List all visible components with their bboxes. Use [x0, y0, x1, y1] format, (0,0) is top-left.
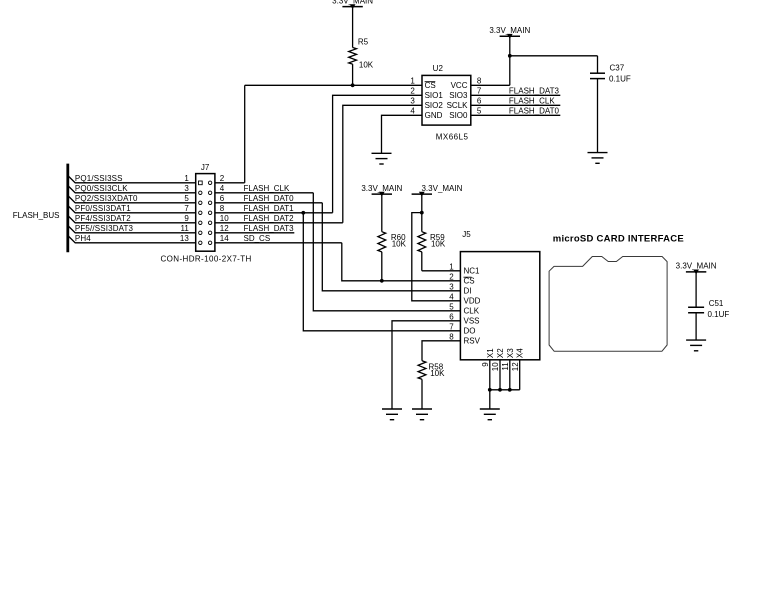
svg-text:12: 12 — [511, 362, 520, 371]
svg-text:VSS: VSS — [464, 317, 480, 326]
svg-text:microSD CARD INTERFACE: microSD CARD INTERFACE — [553, 234, 684, 245]
bus entry + wire PQ0/SSI3CLK (J7 pin 3) — [68, 184, 195, 193]
svg-text:3: 3 — [410, 97, 415, 106]
IC U2 MX66L5 flash — [410, 64, 482, 142]
bus entry + wire PH4 (J7 pin 13) — [68, 234, 195, 243]
svg-text:GND: GND — [425, 111, 443, 120]
wire FLASH_DAT0 to J5 DI — [322, 203, 460, 291]
svg-text:2: 2 — [410, 87, 415, 96]
wire U2 GND pin to ground — [382, 115, 423, 153]
svg-text:10: 10 — [220, 214, 229, 223]
svg-text:9: 9 — [481, 362, 490, 367]
svg-text:2: 2 — [220, 174, 225, 183]
svg-text:FLASH_DAT3: FLASH_DAT3 — [244, 224, 295, 233]
wire FLASH_DAT1 to J5 DO — [303, 213, 460, 331]
node VCC/C37 junction — [508, 54, 512, 58]
svg-text:FLASH_BUS: FLASH_BUS — [13, 211, 60, 220]
svg-text:PQ0/SSI3CLK: PQ0/SSI3CLK — [75, 184, 128, 193]
svg-text:PF0/SSI3DAT1: PF0/SSI3DAT1 — [75, 204, 131, 213]
bus entry + wire PQ1/SSI3SS (J7 pin 1) — [68, 174, 195, 183]
svg-text:J7: J7 — [201, 163, 210, 172]
svg-text:J5: J5 — [462, 230, 471, 239]
svg-text:11: 11 — [180, 224, 189, 233]
svg-text:1: 1 — [184, 174, 189, 183]
microSD card outline drawing — [549, 257, 667, 352]
svg-text:CS: CS — [464, 277, 475, 286]
wire U2 pin6 net FLASH_CLK — [471, 97, 561, 106]
svg-text:R5: R5 — [358, 37, 369, 46]
svg-text:DO: DO — [464, 327, 476, 336]
svg-text:SIO0: SIO0 — [449, 111, 468, 120]
svg-text:14: 14 — [220, 234, 229, 243]
bus FLASH_BUS — [13, 164, 68, 253]
svg-text:FLASH_DAT0: FLASH_DAT0 — [509, 107, 560, 116]
svg-text:2: 2 — [449, 272, 454, 281]
svg-text:3.3V_MAIN: 3.3V_MAIN — [489, 26, 530, 35]
svg-text:X3: X3 — [506, 348, 515, 358]
svg-text:10: 10 — [491, 362, 500, 371]
svg-text:PF4/SSI3DAT2: PF4/SSI3DAT2 — [75, 214, 131, 223]
svg-text:CON-HDR-100-2X7-TH: CON-HDR-100-2X7-TH — [161, 255, 252, 264]
svg-text:1: 1 — [410, 77, 415, 86]
svg-text:PF5//SSI3DAT3: PF5//SSI3DAT3 — [75, 224, 134, 233]
wire FLASH_CLK to J5 CLK — [313, 193, 460, 311]
svg-text:7: 7 — [477, 87, 482, 96]
svg-text:0.1UF: 0.1UF — [609, 74, 631, 83]
wire U2 pin5 net FLASH_DAT0 — [471, 107, 561, 116]
wire CS net vertical x=244 — [244, 85, 246, 183]
svg-text:0.1UF: 0.1UF — [708, 310, 730, 319]
svg-text:X1: X1 — [486, 348, 495, 358]
ground C37 — [588, 153, 608, 164]
bus entry + wire PF0/SSI3DAT1 (J7 pin 7) — [68, 204, 195, 213]
svg-text:SIO2: SIO2 — [425, 101, 444, 110]
wire J7 pin 14 row net SD_CS — [215, 234, 342, 243]
svg-text:4: 4 — [449, 292, 454, 301]
svg-text:6: 6 — [477, 97, 482, 106]
wire J7 pin 10 row net FLASH_DAT2 — [215, 214, 343, 223]
svg-text:8: 8 — [477, 77, 482, 86]
resistor R5 10K pullup — [349, 7, 374, 86]
svg-text:3.3V_MAIN: 3.3V_MAIN — [361, 184, 402, 193]
svg-text:10K: 10K — [430, 369, 445, 378]
wire J5 bottom pins 9-12 — [481, 360, 520, 409]
power 3.3V_MAIN (R60) — [361, 184, 402, 197]
svg-text:SD_CS: SD_CS — [244, 234, 271, 243]
node X3 junction — [508, 388, 512, 392]
node R59 rail junction — [420, 211, 424, 215]
wire CS net horizontal to U2 pin1 — [245, 84, 422, 86]
wire to C37 — [510, 55, 598, 57]
svg-text:10K: 10K — [431, 240, 446, 249]
svg-text:FLASH_DAT1: FLASH_DAT1 — [244, 204, 295, 213]
wire SD_CS to J5 CS — [342, 243, 461, 281]
svg-text:4: 4 — [220, 184, 225, 193]
wire U2 VCC pin8 — [471, 84, 510, 86]
connector J7 CON-HDR-100-2X7-TH — [161, 163, 252, 264]
power 3.3V_MAIN (C51) — [676, 262, 717, 275]
svg-text:3.3V_MAIN: 3.3V_MAIN — [676, 262, 717, 271]
svg-text:SCLK: SCLK — [447, 101, 469, 110]
svg-text:6: 6 — [220, 194, 225, 203]
svg-text:FLASH_DAT0: FLASH_DAT0 — [244, 194, 295, 203]
resistor R59 10K — [418, 194, 461, 271]
svg-text:11: 11 — [501, 362, 510, 371]
svg-text:SIO3: SIO3 — [449, 91, 468, 100]
ground J5 shield pins — [480, 409, 500, 420]
bus entry + wire PF4/SSI3DAT2 (J7 pin 9) — [68, 214, 195, 223]
resistor R58 10K — [418, 341, 460, 409]
bus entry + wire PF5//SSI3DAT3 (J7 pin 11) — [68, 224, 195, 233]
resistor R60 10K — [378, 194, 407, 281]
svg-text:U2: U2 — [433, 64, 444, 73]
wire J7 pin 6 row net FLASH_DAT0 — [215, 194, 322, 203]
svg-text:5: 5 — [184, 194, 189, 203]
svg-text:DI: DI — [464, 287, 472, 296]
wire J7 pin 8 row net FLASH_DAT1 — [215, 204, 333, 213]
wire J7 pin 4 row net FLASH_CLK — [215, 184, 313, 193]
wire 3.3V to J5 VDD — [412, 213, 461, 301]
svg-text:PH4: PH4 — [75, 234, 91, 243]
svg-text:10K: 10K — [359, 61, 374, 70]
wire VCC rail vertical — [509, 36, 511, 85]
capacitor C37 0.1UF — [597, 56, 599, 73]
svg-text:8: 8 — [449, 332, 454, 341]
connector J5 microSD socket — [449, 230, 540, 360]
svg-text:FLASH_CLK: FLASH_CLK — [244, 184, 290, 193]
svg-text:X2: X2 — [496, 348, 505, 358]
svg-text:10K: 10K — [392, 240, 407, 249]
svg-text:FLASH_CLK: FLASH_CLK — [509, 97, 555, 106]
svg-text:9: 9 — [184, 214, 189, 223]
svg-text:12: 12 — [220, 224, 229, 233]
svg-text:CS: CS — [425, 81, 436, 90]
node R60/SD_CS junction — [380, 279, 384, 283]
ground R58 — [412, 409, 432, 420]
svg-text:MX66L5: MX66L5 — [436, 133, 469, 142]
wire J5 VSS to ground — [392, 321, 460, 409]
ground C51 — [686, 340, 706, 351]
capacitor C51 0.1UF — [695, 272, 697, 307]
svg-text:7: 7 — [449, 322, 454, 331]
svg-text:PQ2/SSI3XDAT0: PQ2/SSI3XDAT0 — [75, 194, 138, 203]
svg-text:1: 1 — [449, 262, 454, 271]
svg-text:SIO1: SIO1 — [425, 91, 444, 100]
svg-text:CLK: CLK — [464, 307, 480, 316]
svg-text:5: 5 — [449, 302, 454, 311]
svg-text:VCC: VCC — [451, 81, 468, 90]
svg-text:VDD: VDD — [464, 297, 481, 306]
svg-text:13: 13 — [180, 234, 189, 243]
svg-text:C37: C37 — [610, 63, 625, 72]
node X1 junction — [488, 388, 492, 392]
power 3.3V_MAIN (R5 pullup rail) — [332, 0, 373, 9]
svg-text:C51: C51 — [709, 299, 724, 308]
svg-text:4: 4 — [410, 107, 415, 116]
power 3.3V_MAIN (R59) — [412, 184, 463, 197]
svg-text:RSV: RSV — [464, 337, 481, 346]
svg-text:6: 6 — [449, 312, 454, 321]
svg-text:X4: X4 — [516, 348, 525, 358]
node FLASH_DAT1 junction — [301, 211, 305, 215]
wire U2 SIO1 to FLASH_DAT1 — [333, 95, 422, 213]
svg-text:PQ1/SSI3SS: PQ1/SSI3SS — [75, 174, 123, 183]
svg-text:FLASH_DAT2: FLASH_DAT2 — [244, 214, 295, 223]
bus entry + wire PQ2/SSI3XDAT0 (J7 pin 5) — [68, 194, 195, 203]
node R5/CS junction — [351, 83, 355, 87]
wire U2 pin7 net FLASH_DAT3 — [471, 87, 561, 96]
ground VSS — [382, 409, 402, 420]
node X2 junction — [498, 388, 502, 392]
power 3.3V_MAIN (U2 VCC rail) — [489, 26, 530, 39]
svg-text:FLASH_DAT3: FLASH_DAT3 — [509, 87, 560, 96]
wire J7 pin2 stub — [215, 182, 245, 184]
wire U2 SIO2 to FLASH_DAT2 — [343, 105, 422, 223]
svg-text:3.3V_MAIN: 3.3V_MAIN — [422, 184, 463, 193]
svg-text:5: 5 — [477, 107, 482, 116]
wire J7 pin 2 row — [220, 174, 225, 183]
wire J7 pin 12 row net FLASH_DAT3 — [215, 224, 294, 233]
svg-text:7: 7 — [184, 204, 189, 213]
svg-text:8: 8 — [220, 204, 225, 213]
ground U2 GND — [372, 153, 392, 164]
svg-text:NC1: NC1 — [464, 267, 481, 276]
svg-text:3: 3 — [184, 184, 189, 193]
svg-text:3: 3 — [449, 282, 454, 291]
